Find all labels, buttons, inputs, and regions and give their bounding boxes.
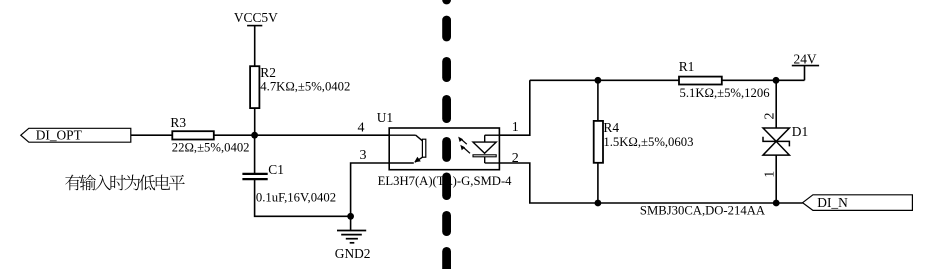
U1 pin number 2	[512, 151, 519, 166]
svg-text:GND2: GND2	[335, 246, 371, 261]
svg-text:1: 1	[512, 120, 519, 135]
svg-text:R2: R2	[260, 65, 276, 80]
svg-text:4.7KΩ,±5%,0402: 4.7KΩ,±5%,0402	[260, 80, 350, 94]
U1 phototransistor	[389, 135, 426, 163]
wire R4 vertical	[597, 80, 599, 203]
svg-text:DI_N: DI_N	[817, 195, 848, 210]
wire node to C1	[254, 135, 256, 174]
svg-text:3: 3	[360, 148, 367, 163]
svg-text:R4: R4	[603, 120, 619, 135]
wire R3 to U1 pin 4	[214, 134, 389, 136]
port DI_N	[803, 195, 913, 211]
U1 light arrows	[458, 137, 470, 154]
U1 pin number 3	[360, 148, 367, 163]
power 24V	[792, 52, 819, 81]
page boundary dashed line	[442, 0, 451, 269]
wire U1 pin 2 to bottom rail	[499, 163, 802, 203]
svg-text:22Ω,±5%,0402: 22Ω,±5%,0402	[172, 140, 250, 154]
node junction D1 bottom	[773, 200, 780, 207]
wire U1 pin 3 to ground node	[351, 163, 390, 216]
svg-text:VCC5V: VCC5V	[234, 10, 278, 25]
wire top rail 24V	[530, 79, 805, 81]
node junction R4 top	[595, 77, 602, 84]
wire C1 to bottom rail	[255, 179, 351, 216]
svg-text:DI_OPT: DI_OPT	[36, 127, 82, 142]
resistor R3	[170, 115, 249, 154]
U1 LED	[473, 135, 499, 163]
resistor R2	[250, 65, 350, 108]
TVS diode D1	[763, 80, 809, 203]
optocoupler U1 body	[377, 110, 512, 188]
port DI_OPT	[21, 127, 131, 142]
svg-text:1.5KΩ,±5%,0603: 1.5KΩ,±5%,0603	[603, 135, 693, 149]
note Chinese annotation	[65, 174, 184, 190]
ground GND2	[335, 216, 371, 261]
resistor R4	[594, 120, 694, 163]
svg-text:4: 4	[358, 121, 365, 136]
svg-text:U1: U1	[377, 110, 393, 125]
capacitor C1	[242, 162, 336, 204]
power VCC5V	[234, 10, 278, 66]
label SMBJ30CA	[640, 203, 766, 217]
ground node junction	[347, 213, 354, 220]
node junction R2/R3/C1	[251, 132, 258, 139]
resistor R1	[679, 59, 770, 100]
U1 pin number 1	[512, 120, 519, 135]
svg-text:SMBJ30CA,DO-214AA: SMBJ30CA,DO-214AA	[640, 203, 766, 217]
svg-text:D1: D1	[792, 124, 808, 139]
svg-text:0.1uF,16V,0402: 0.1uF,16V,0402	[256, 190, 336, 204]
svg-text:24V: 24V	[794, 52, 817, 67]
wire DI_OPT to R3	[131, 134, 172, 136]
node junction D1 top	[773, 77, 780, 84]
svg-text:5.1KΩ,±5%,1206: 5.1KΩ,±5%,1206	[680, 86, 770, 100]
wire U1 pin 1 to top rail	[499, 80, 529, 135]
U1 pin number 4	[358, 121, 365, 136]
svg-text:C1: C1	[268, 162, 284, 177]
svg-text:R3: R3	[170, 115, 186, 130]
svg-text:R1: R1	[679, 59, 695, 74]
svg-text:1: 1	[763, 171, 778, 178]
svg-text:2: 2	[763, 113, 778, 120]
node junction R4 bottom	[595, 200, 602, 207]
wire R2 to node	[254, 108, 256, 135]
